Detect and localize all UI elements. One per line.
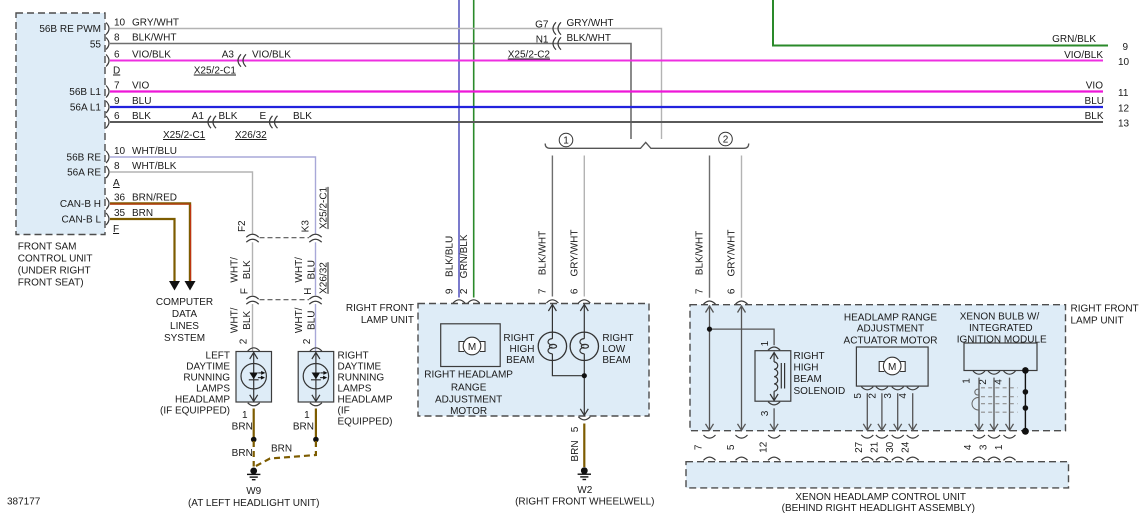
svg-text:EQUIPPED): EQUIPPED) [338, 417, 393, 428]
svg-text:CAN-B L: CAN-B L [62, 215, 102, 226]
svg-text:RUNNING: RUNNING [183, 373, 230, 384]
svg-text:7: 7 [114, 81, 120, 92]
svg-text:DAYTIME: DAYTIME [186, 362, 230, 373]
svg-text:BRN: BRN [232, 448, 253, 459]
svg-text:XENON HEADLAMP CONTROL UNIT: XENON HEADLAMP CONTROL UNIT [795, 492, 966, 503]
svg-text:DAYTIME: DAYTIME [338, 362, 382, 373]
svg-text:W9: W9 [246, 486, 261, 497]
svg-text:(IF EQUIPPED): (IF EQUIPPED) [160, 406, 230, 417]
svg-text:WHT/: WHT/ [230, 257, 241, 283]
svg-text:VIO/BLK: VIO/BLK [132, 50, 171, 61]
svg-text:INTEGRATED: INTEGRATED [969, 323, 1033, 334]
svg-text:GRY/WHT: GRY/WHT [567, 18, 614, 29]
svg-text:(RIGHT FRONT WHEELWELL): (RIGHT FRONT WHEELWELL) [515, 496, 654, 507]
svg-text:10: 10 [1118, 57, 1130, 68]
svg-text:BLK: BLK [219, 111, 238, 122]
svg-text:F: F [240, 288, 251, 294]
svg-text:WHT/: WHT/ [294, 257, 305, 283]
svg-text:RIGHT: RIGHT [794, 351, 825, 362]
svg-text:2: 2 [239, 338, 250, 344]
svg-text:N1: N1 [536, 34, 549, 45]
svg-text:H: H [303, 288, 314, 295]
svg-text:(UNDER RIGHT: (UNDER RIGHT [18, 265, 91, 276]
svg-text:24: 24 [901, 441, 912, 453]
svg-text:55: 55 [90, 40, 102, 51]
svg-text:DATA: DATA [172, 309, 198, 320]
svg-text:ADJUSTMENT: ADJUSTMENT [857, 324, 924, 335]
svg-text:9: 9 [1123, 42, 1129, 53]
svg-text:ACTUATOR MOTOR: ACTUATOR MOTOR [844, 336, 938, 347]
svg-text:21: 21 [870, 441, 881, 453]
svg-text:GRY/WHT: GRY/WHT [727, 229, 738, 276]
svg-text:56A RE: 56A RE [67, 168, 101, 179]
svg-text:BEAM: BEAM [794, 374, 822, 385]
svg-text:BLU: BLU [132, 96, 151, 107]
svg-text:A1: A1 [192, 111, 205, 122]
svg-text:2: 2 [459, 288, 470, 294]
svg-text:BLK/WHT: BLK/WHT [567, 33, 611, 44]
svg-text:9: 9 [114, 96, 120, 107]
svg-text:BLK/BLU: BLK/BLU [444, 236, 455, 277]
svg-text:7: 7 [694, 444, 705, 450]
svg-text:1: 1 [962, 378, 973, 384]
svg-text:7: 7 [695, 288, 706, 294]
svg-text:LAMP UNIT: LAMP UNIT [361, 315, 414, 326]
svg-text:RIGHT: RIGHT [503, 333, 534, 344]
svg-text:4: 4 [963, 444, 974, 450]
svg-text:BRN: BRN [271, 444, 292, 455]
svg-text:30: 30 [885, 441, 896, 453]
svg-text:WHT/: WHT/ [230, 307, 241, 333]
svg-text:(IF: (IF [338, 406, 350, 417]
svg-text:X25/2-C1: X25/2-C1 [319, 186, 330, 229]
svg-text:SYSTEM: SYSTEM [164, 333, 205, 344]
svg-text:387177: 387177 [7, 497, 41, 508]
svg-text:RIGHT HEADLAMP: RIGHT HEADLAMP [424, 369, 513, 380]
svg-text:12: 12 [759, 441, 770, 453]
svg-text:CAN-B H: CAN-B H [60, 199, 101, 210]
svg-text:WHT/BLK: WHT/BLK [132, 161, 177, 172]
svg-text:LOW: LOW [602, 344, 625, 355]
svg-text:10: 10 [114, 18, 126, 29]
svg-text:LEFT: LEFT [206, 351, 230, 362]
svg-text:BLU: BLU [306, 260, 317, 279]
svg-text:WHT/: WHT/ [294, 307, 305, 333]
svg-text:LAMPS: LAMPS [338, 384, 372, 395]
svg-text:M: M [888, 362, 896, 373]
svg-text:HEADLAMP: HEADLAMP [175, 395, 230, 406]
svg-text:7: 7 [538, 288, 549, 294]
svg-text:X26/32: X26/32 [235, 130, 267, 141]
svg-text:BRN: BRN [232, 422, 253, 433]
svg-text:(BEHIND RIGHT HEADLIGHT ASSEMB: (BEHIND RIGHT HEADLIGHT ASSEMBLY) [782, 503, 975, 514]
svg-text:1: 1 [304, 410, 310, 421]
svg-text:X25/2-C1: X25/2-C1 [194, 66, 237, 77]
svg-text:5: 5 [570, 426, 581, 432]
svg-text:XENON BULB W/: XENON BULB W/ [960, 312, 1040, 323]
svg-text:4: 4 [993, 379, 1004, 385]
svg-text:HEADLAMP: HEADLAMP [338, 395, 393, 406]
svg-text:BLK: BLK [242, 311, 253, 330]
svg-text:BLU: BLU [306, 311, 317, 330]
svg-text:LAMPS: LAMPS [196, 384, 230, 395]
svg-text:RIGHT FRONT: RIGHT FRONT [1071, 304, 1139, 315]
svg-text:E: E [260, 111, 267, 122]
svg-text:36: 36 [114, 193, 126, 204]
svg-text:56B L1: 56B L1 [69, 87, 101, 98]
svg-text:RUNNING: RUNNING [338, 373, 385, 384]
svg-text:BRN/RED: BRN/RED [132, 193, 177, 204]
svg-text:3: 3 [883, 393, 894, 399]
svg-text:5: 5 [726, 444, 737, 450]
svg-text:(AT LEFT HEADLIGHT UNIT): (AT LEFT HEADLIGHT UNIT) [188, 498, 320, 509]
svg-text:8: 8 [114, 33, 120, 44]
svg-text:GRN/BLK: GRN/BLK [1052, 34, 1096, 45]
svg-text:X25/2-C1: X25/2-C1 [163, 130, 206, 141]
svg-text:BLK/WHT: BLK/WHT [132, 33, 176, 44]
svg-text:6: 6 [114, 111, 120, 122]
svg-text:27: 27 [854, 441, 865, 453]
svg-text:9: 9 [444, 288, 455, 294]
svg-text:MOTOR: MOTOR [450, 406, 487, 417]
svg-text:X25/2-C2: X25/2-C2 [508, 50, 551, 61]
svg-text:RIGHT: RIGHT [602, 333, 633, 344]
svg-text:D: D [113, 66, 120, 77]
svg-text:BLK/WHT: BLK/WHT [695, 231, 706, 275]
svg-text:3: 3 [979, 444, 990, 450]
svg-text:12: 12 [1118, 104, 1130, 115]
svg-text:6: 6 [570, 288, 581, 294]
svg-text:GRY/WHT: GRY/WHT [132, 18, 179, 29]
svg-text:BLU: BLU [1085, 96, 1104, 107]
svg-text:BLK: BLK [242, 260, 253, 279]
svg-text:1: 1 [760, 340, 771, 346]
svg-text:BLK: BLK [1085, 111, 1104, 122]
svg-text:X26/32: X26/32 [319, 262, 330, 294]
svg-text:VIO/BLK: VIO/BLK [1064, 50, 1103, 61]
svg-text:BEAM: BEAM [602, 355, 630, 366]
svg-text:BLK: BLK [293, 111, 312, 122]
svg-text:F: F [113, 224, 119, 235]
svg-text:56B RE: 56B RE [67, 153, 102, 164]
svg-text:BRN: BRN [132, 208, 153, 219]
svg-text:5: 5 [853, 393, 864, 399]
svg-text:BLK: BLK [132, 111, 151, 122]
svg-text:GRN/BLK: GRN/BLK [459, 234, 470, 278]
svg-text:RIGHT: RIGHT [338, 351, 369, 362]
svg-text:56B RE PWM: 56B RE PWM [39, 24, 101, 35]
svg-text:VIO: VIO [1086, 81, 1103, 92]
svg-text:WHT/BLU: WHT/BLU [132, 146, 177, 157]
svg-text:1: 1 [994, 444, 1005, 450]
svg-text:VIO/BLK: VIO/BLK [252, 50, 291, 61]
svg-text:A3: A3 [222, 50, 235, 61]
svg-text:VIO: VIO [132, 81, 149, 92]
svg-text:8: 8 [114, 161, 120, 172]
svg-text:4: 4 [898, 393, 909, 399]
svg-text:W2: W2 [577, 485, 592, 496]
svg-text:BRN: BRN [293, 422, 314, 433]
svg-text:LINES: LINES [170, 321, 199, 332]
svg-text:2: 2 [723, 134, 729, 145]
svg-text:10: 10 [114, 146, 126, 157]
svg-text:ADJUSTMENT: ADJUSTMENT [435, 394, 502, 405]
svg-text:HIGH: HIGH [510, 344, 535, 355]
svg-text:RANGE: RANGE [451, 383, 487, 394]
svg-text:6: 6 [727, 288, 738, 294]
svg-text:FRONT SEAT): FRONT SEAT) [18, 277, 84, 288]
svg-text:BRN: BRN [570, 440, 581, 461]
svg-text:13: 13 [1118, 119, 1130, 130]
svg-text:2: 2 [867, 393, 878, 399]
svg-text:CONTROL UNIT: CONTROL UNIT [18, 253, 93, 264]
svg-text:LAMP UNIT: LAMP UNIT [1071, 316, 1124, 327]
svg-text:1: 1 [242, 410, 248, 421]
svg-text:FRONT SAM: FRONT SAM [18, 241, 77, 252]
svg-text:HEADLAMP RANGE: HEADLAMP RANGE [844, 312, 938, 323]
svg-text:HIGH: HIGH [794, 363, 819, 374]
svg-text:G7: G7 [535, 19, 549, 30]
svg-text:11: 11 [1118, 88, 1129, 99]
svg-text:2: 2 [302, 338, 313, 344]
svg-text:BEAM: BEAM [506, 355, 534, 366]
svg-text:RIGHT FRONT: RIGHT FRONT [346, 303, 414, 314]
svg-text:56A L1: 56A L1 [70, 103, 102, 114]
svg-text:F2: F2 [237, 220, 248, 232]
svg-text:1: 1 [563, 135, 569, 146]
svg-text:COMPUTER: COMPUTER [156, 297, 213, 308]
svg-text:A: A [113, 178, 120, 189]
svg-text:K3: K3 [301, 220, 312, 233]
svg-text:BLK/WHT: BLK/WHT [538, 231, 549, 275]
svg-text:6: 6 [114, 50, 120, 61]
svg-text:M: M [468, 342, 476, 353]
svg-text:GRY/WHT: GRY/WHT [570, 229, 581, 276]
svg-text:3: 3 [760, 410, 771, 416]
svg-text:SOLENOID: SOLENOID [794, 386, 846, 397]
svg-text:35: 35 [114, 208, 126, 219]
